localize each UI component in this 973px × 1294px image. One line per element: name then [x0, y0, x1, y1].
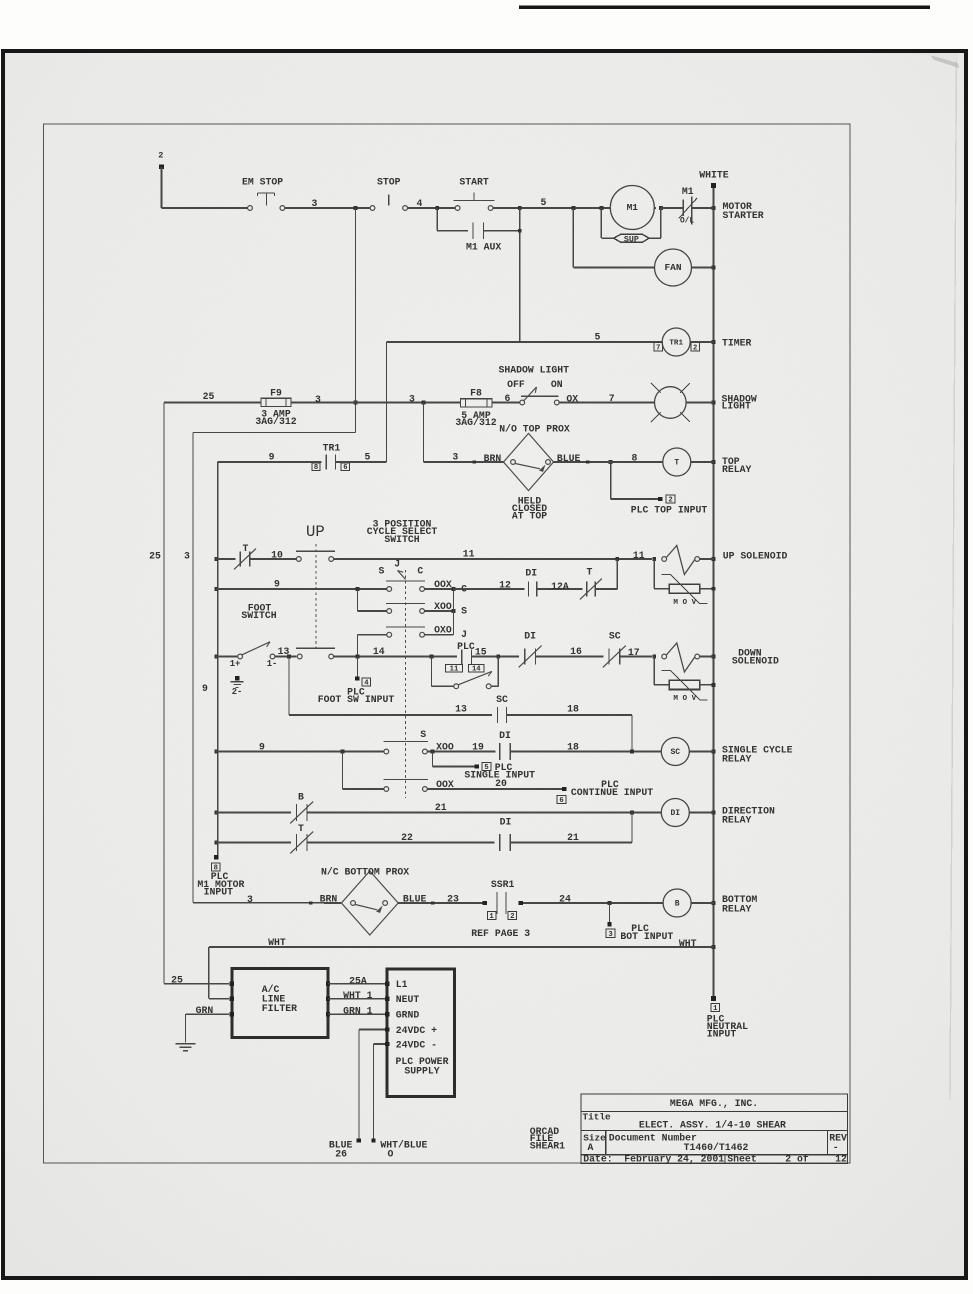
svg-text:OOX: OOX — [434, 579, 452, 590]
svg-text:6: 6 — [504, 393, 510, 404]
svg-text:TR1: TR1 — [323, 443, 341, 454]
svg-text:AT TOP: AT TOP — [512, 510, 547, 521]
svg-text:5: 5 — [541, 197, 547, 208]
svg-text:25: 25 — [171, 975, 183, 986]
svg-text:START: START — [459, 177, 489, 188]
svg-text:REF PAGE 3: REF PAGE 3 — [471, 928, 530, 939]
svg-text:SUPPLY: SUPPLY — [404, 1066, 439, 1077]
svg-text:21: 21 — [567, 832, 579, 843]
svg-text:T: T — [587, 567, 593, 578]
svg-text:21: 21 — [435, 802, 447, 813]
svg-text:February 24, 2001: February 24, 2001 — [624, 1153, 724, 1164]
svg-text:UP SOLENOID: UP SOLENOID — [723, 550, 788, 561]
svg-text:OXO: OXO — [434, 625, 452, 636]
svg-text:BOT INPUT: BOT INPUT — [620, 931, 673, 942]
svg-text:L1: L1 — [396, 979, 408, 990]
svg-text:F9: F9 — [270, 387, 282, 398]
svg-text:F8: F8 — [470, 387, 482, 398]
svg-text:3: 3 — [315, 394, 321, 405]
svg-text:N/C BOTTOM PROX: N/C BOTTOM PROX — [321, 866, 409, 877]
svg-text:-: - — [833, 1142, 839, 1153]
svg-text:SC: SC — [670, 748, 680, 757]
svg-text:18: 18 — [567, 704, 579, 715]
svg-text:7: 7 — [656, 344, 660, 352]
svg-text:O/L: O/L — [680, 218, 694, 226]
svg-text:RELAY: RELAY — [722, 754, 752, 765]
svg-text:STOP: STOP — [377, 177, 401, 188]
svg-text:3: 3 — [608, 931, 612, 939]
svg-text:3: 3 — [409, 394, 415, 405]
svg-text:FILTER: FILTER — [262, 1003, 297, 1014]
svg-text:1-: 1- — [267, 659, 278, 669]
svg-text:OOX: OOX — [436, 779, 454, 790]
svg-text:DI: DI — [500, 816, 512, 827]
svg-text:ON: ON — [551, 379, 563, 390]
svg-text:2-: 2- — [232, 687, 243, 697]
svg-text:15: 15 — [475, 646, 487, 657]
svg-text:B: B — [675, 900, 680, 909]
svg-text:RELAY: RELAY — [722, 814, 752, 825]
svg-text:BRN: BRN — [484, 453, 502, 464]
svg-text:11: 11 — [450, 666, 459, 674]
svg-text:2 of: 2 of — [785, 1153, 809, 1164]
svg-text:T: T — [674, 459, 679, 468]
svg-text:WHT: WHT — [679, 938, 697, 949]
svg-text:SC: SC — [496, 694, 508, 705]
svg-text:WHT: WHT — [268, 937, 286, 948]
svg-text:A: A — [588, 1142, 594, 1153]
svg-text:M1 AUX: M1 AUX — [466, 242, 501, 253]
svg-text:B: B — [298, 791, 304, 802]
svg-text:25: 25 — [203, 391, 215, 402]
svg-text:GRND: GRND — [396, 1009, 420, 1020]
svg-text:12: 12 — [835, 1153, 847, 1164]
svg-text:S: S — [461, 605, 467, 616]
svg-text:3: 3 — [312, 198, 318, 209]
svg-text:24: 24 — [559, 893, 571, 904]
svg-text:3AG/312: 3AG/312 — [455, 417, 496, 428]
svg-text:14: 14 — [472, 666, 481, 674]
svg-text:17: 17 — [628, 647, 640, 658]
svg-text:4: 4 — [417, 198, 423, 209]
svg-text:2: 2 — [693, 344, 697, 352]
svg-text:ELECT. ASSY. 1/4-10 SHEAR: ELECT. ASSY. 1/4-10 SHEAR — [639, 1120, 786, 1131]
svg-text:6: 6 — [343, 464, 347, 472]
svg-text:RELAY: RELAY — [722, 903, 752, 914]
svg-text:EM STOP: EM STOP — [242, 177, 283, 188]
svg-text:WHT 1: WHT 1 — [343, 990, 373, 1001]
svg-text:11: 11 — [633, 550, 645, 561]
svg-text:3: 3 — [452, 451, 458, 462]
svg-text:INPUT: INPUT — [204, 887, 234, 898]
svg-text:9: 9 — [269, 452, 275, 463]
svg-text:3: 3 — [184, 551, 190, 562]
svg-text:MEGA MFG., INC.: MEGA MFG., INC. — [670, 1098, 758, 1109]
svg-text:4: 4 — [364, 680, 369, 688]
svg-text:6: 6 — [559, 797, 563, 805]
svg-text:13: 13 — [455, 704, 467, 715]
svg-text:OFF: OFF — [507, 379, 525, 390]
svg-text:PLC: PLC — [457, 641, 475, 652]
svg-text:12: 12 — [499, 580, 511, 591]
svg-text:9: 9 — [274, 578, 280, 589]
svg-text:23: 23 — [447, 893, 459, 904]
svg-text:XOO: XOO — [436, 741, 454, 752]
svg-text:LIGHT: LIGHT — [722, 401, 752, 412]
svg-text:J: J — [461, 629, 467, 640]
svg-text:FOOT SW INPUT: FOOT SW INPUT — [318, 694, 395, 705]
svg-text:SOLENOID: SOLENOID — [732, 655, 779, 666]
svg-text:19: 19 — [472, 741, 484, 752]
svg-text:O: O — [387, 1148, 393, 1159]
svg-text:1: 1 — [489, 913, 494, 921]
svg-text:SHEAR1: SHEAR1 — [530, 1140, 565, 1151]
svg-text:STARTER: STARTER — [723, 210, 764, 221]
svg-text:9: 9 — [259, 741, 265, 752]
svg-text:GRN 1: GRN 1 — [343, 1005, 373, 1016]
svg-text:M O V: M O V — [673, 695, 696, 703]
svg-text:7: 7 — [609, 393, 615, 404]
svg-text:BRN: BRN — [320, 893, 338, 904]
svg-text:WHITE: WHITE — [699, 170, 729, 181]
svg-text:N/O TOP PROX: N/O TOP PROX — [499, 423, 570, 434]
svg-text:M1: M1 — [682, 186, 694, 197]
svg-text:M1: M1 — [627, 202, 639, 213]
svg-text:PLC TOP INPUT: PLC TOP INPUT — [631, 504, 708, 515]
svg-text:1: 1 — [713, 1005, 718, 1013]
svg-text:18: 18 — [567, 741, 579, 752]
svg-text:TIMER: TIMER — [722, 337, 752, 348]
svg-text:11: 11 — [463, 549, 475, 560]
svg-text:16: 16 — [570, 646, 582, 657]
svg-text:12A: 12A — [551, 581, 569, 592]
svg-text:CONTINUE INPUT: CONTINUE INPUT — [571, 787, 653, 798]
svg-text:NEUT: NEUT — [396, 994, 420, 1005]
svg-text:2: 2 — [158, 151, 163, 161]
svg-text:RELAY: RELAY — [722, 464, 752, 475]
svg-text:SC: SC — [609, 631, 621, 642]
svg-text:M O V: M O V — [673, 599, 696, 607]
svg-text:5: 5 — [594, 331, 600, 342]
svg-text:3: 3 — [247, 894, 253, 905]
svg-text:T: T — [243, 543, 249, 554]
svg-text:T: T — [298, 823, 304, 834]
svg-text:Title: Title — [583, 1112, 612, 1123]
svg-text:9: 9 — [202, 683, 208, 694]
svg-text:2: 2 — [510, 913, 514, 921]
svg-text:S: S — [378, 566, 384, 577]
svg-text:INPUT: INPUT — [707, 1028, 737, 1039]
svg-text:OX: OX — [566, 393, 578, 404]
svg-text:J: J — [394, 559, 400, 570]
svg-text:DI: DI — [670, 809, 680, 818]
svg-text:8: 8 — [631, 452, 637, 463]
svg-text:DI: DI — [499, 730, 511, 741]
svg-text:20: 20 — [495, 778, 507, 789]
svg-text:14: 14 — [373, 646, 385, 657]
svg-text:SWITCH: SWITCH — [384, 534, 419, 545]
svg-text:FAN: FAN — [664, 262, 681, 273]
svg-text:3AG/312: 3AG/312 — [255, 416, 296, 427]
svg-text:SSR1: SSR1 — [491, 879, 515, 890]
svg-text:26: 26 — [335, 1148, 347, 1159]
svg-text:5: 5 — [365, 451, 371, 462]
svg-text:25A: 25A — [349, 975, 367, 986]
svg-text:S: S — [420, 729, 426, 740]
svg-text:DI: DI — [525, 568, 537, 579]
svg-text:Date:: Date: — [583, 1153, 612, 1164]
svg-text:SHADOW LIGHT: SHADOW LIGHT — [499, 364, 570, 375]
svg-text:8: 8 — [314, 464, 318, 472]
svg-text:BLUE: BLUE — [557, 453, 581, 464]
svg-text:C: C — [417, 566, 423, 577]
svg-text:10: 10 — [271, 549, 283, 560]
svg-text:24VDC -: 24VDC - — [396, 1039, 437, 1050]
svg-text:T1460/T1462: T1460/T1462 — [684, 1142, 749, 1153]
svg-text:22: 22 — [401, 832, 413, 843]
svg-text:XOO: XOO — [434, 601, 452, 612]
svg-text:SUP: SUP — [624, 234, 639, 244]
svg-text:SWITCH: SWITCH — [241, 610, 276, 621]
svg-text:UP: UP — [306, 523, 325, 541]
svg-text:Sheet: Sheet — [727, 1153, 756, 1164]
svg-text:TR1: TR1 — [669, 340, 683, 348]
svg-text:24VDC +: 24VDC + — [396, 1025, 437, 1036]
svg-text:25: 25 — [149, 551, 161, 562]
svg-text:BLUE: BLUE — [403, 893, 427, 904]
svg-text:1+: 1+ — [230, 659, 241, 669]
svg-text:DI: DI — [524, 631, 536, 642]
